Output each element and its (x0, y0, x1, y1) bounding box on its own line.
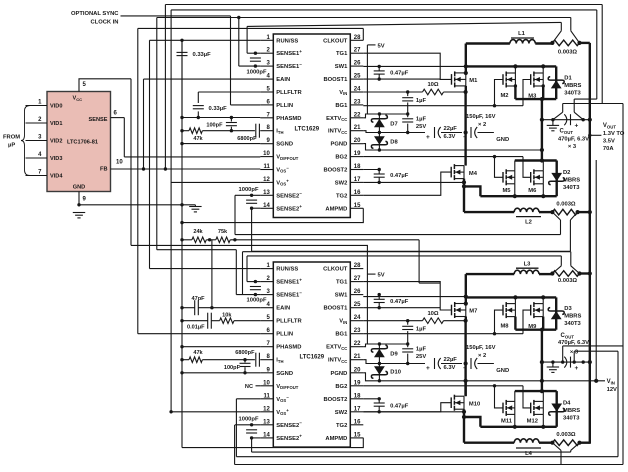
svg-text:SENSE2+: SENSE2+ (276, 434, 302, 442)
svg-text:NC: NC (245, 384, 253, 390)
svg-text:6.3V: 6.3V (444, 365, 456, 371)
svg-text:D3: D3 (564, 306, 572, 312)
svg-text:25V: 25V (416, 354, 426, 360)
svg-text:1µF: 1µF (416, 326, 427, 332)
svg-text:19: 19 (354, 151, 361, 157)
svg-text:VCC: VCC (73, 96, 83, 102)
svg-text:5V: 5V (378, 43, 385, 49)
svg-text:23: 23 (354, 99, 361, 105)
svg-text:10k: 10k (222, 313, 232, 319)
svg-text:1000pF: 1000pF (239, 417, 259, 423)
svg-text:0.003Ω: 0.003Ω (556, 432, 576, 438)
svg-text:VID4: VID4 (50, 174, 63, 180)
svg-text:16: 16 (354, 190, 361, 196)
svg-text:D8: D8 (390, 140, 398, 146)
svg-text:MBRS: MBRS (563, 408, 580, 414)
svg-text:M10: M10 (469, 402, 480, 408)
svg-text:D9: D9 (390, 352, 398, 358)
svg-text:L1: L1 (518, 31, 526, 37)
svg-text:LTC1629: LTC1629 (300, 355, 325, 361)
svg-text:PLLFLTR: PLLFLTR (276, 90, 302, 96)
svg-text:25V: 25V (416, 124, 426, 130)
svg-text:13: 13 (263, 190, 270, 196)
svg-text:BOOST2: BOOST2 (323, 397, 347, 403)
svg-text:+: + (575, 365, 579, 372)
svg-text:× 2: × 2 (478, 353, 486, 359)
svg-text:0.33µF: 0.33µF (193, 52, 212, 58)
svg-text:340T3: 340T3 (563, 416, 580, 422)
svg-text:BG1: BG1 (335, 332, 348, 338)
svg-text:M2: M2 (500, 93, 508, 99)
svg-text:D4: D4 (563, 401, 571, 407)
svg-text:1000pF: 1000pF (239, 187, 259, 193)
svg-text:22µF: 22µF (444, 357, 458, 363)
svg-text:18: 18 (354, 393, 361, 399)
svg-text:0.003Ω: 0.003Ω (558, 50, 578, 56)
svg-text:M7: M7 (469, 309, 477, 315)
svg-text:15: 15 (354, 203, 361, 209)
svg-text:14: 14 (263, 203, 270, 209)
svg-text:VID0: VID0 (50, 104, 62, 110)
svg-text:D7: D7 (390, 122, 397, 128)
svg-text:21: 21 (354, 125, 361, 131)
svg-text:INTVCC: INTVCC (328, 129, 347, 135)
svg-text:25: 25 (354, 74, 361, 80)
svg-text:BOOST1: BOOST1 (323, 77, 348, 83)
svg-text:PHASMD: PHASMD (276, 345, 301, 351)
svg-text:× 3: × 3 (570, 349, 579, 355)
svg-text:21: 21 (354, 354, 361, 360)
svg-text:EXTVCC: EXTVCC (326, 345, 347, 351)
svg-text:M1: M1 (469, 78, 478, 84)
svg-text:SENSE1+: SENSE1+ (276, 49, 302, 57)
svg-text:CLOCK IN: CLOCK IN (90, 20, 118, 26)
svg-text:+: + (463, 134, 467, 141)
svg-text:CLKOUT: CLKOUT (323, 267, 348, 273)
svg-text:6800pF: 6800pF (237, 136, 257, 142)
svg-text:24k: 24k (193, 229, 203, 235)
svg-text:M6: M6 (528, 188, 537, 194)
svg-text:10: 10 (263, 380, 270, 386)
svg-text:19: 19 (354, 380, 361, 386)
svg-text:VID3: VID3 (50, 156, 62, 162)
svg-text:VID1: VID1 (50, 121, 62, 127)
svg-text:SGND: SGND (276, 371, 293, 377)
svg-text:25: 25 (354, 302, 361, 308)
svg-text:VDIFFOUT: VDIFFOUT (276, 155, 298, 161)
svg-text:6.3V: 6.3V (444, 134, 456, 140)
svg-text:L2: L2 (525, 220, 532, 226)
svg-text:L3: L3 (524, 262, 532, 268)
svg-text:SGND: SGND (276, 142, 293, 148)
svg-text:23: 23 (354, 328, 361, 334)
svg-text:10Ω: 10Ω (427, 82, 438, 88)
svg-text:100pF: 100pF (224, 365, 241, 371)
svg-text:GND: GND (496, 368, 509, 374)
svg-text:TG1: TG1 (336, 280, 348, 286)
svg-text:SENSE1−: SENSE1− (276, 290, 302, 298)
svg-text:BG1: BG1 (335, 103, 348, 109)
svg-text:1000pF: 1000pF (247, 70, 267, 76)
svg-text:1000pF: 1000pF (247, 298, 267, 304)
svg-text:11: 11 (263, 393, 270, 399)
svg-text:470µF, 6.3V: 470µF, 6.3V (558, 136, 589, 142)
svg-text:0.47µF: 0.47µF (390, 299, 409, 305)
svg-text:D10: D10 (390, 370, 401, 376)
svg-text:47k: 47k (193, 136, 203, 142)
svg-text:LTC1706-81: LTC1706-81 (67, 140, 98, 146)
svg-text:0.47µF: 0.47µF (390, 404, 409, 410)
svg-text:14: 14 (263, 432, 270, 438)
svg-text:µP: µP (8, 143, 15, 149)
svg-text:TG2: TG2 (336, 423, 347, 429)
svg-text:PHASMD: PHASMD (276, 116, 301, 122)
svg-text:13: 13 (263, 419, 270, 425)
svg-text:10: 10 (263, 151, 270, 157)
svg-text:1µF: 1µF (416, 346, 427, 352)
svg-text:20: 20 (354, 138, 361, 144)
svg-text:EAIN: EAIN (276, 306, 290, 312)
svg-text:INTVCC: INTVCC (328, 358, 347, 364)
svg-text:D2: D2 (563, 170, 570, 176)
svg-text:CLKOUT: CLKOUT (323, 38, 348, 44)
svg-text:PGND: PGND (331, 142, 348, 148)
svg-text:17: 17 (354, 177, 361, 183)
svg-text:75k: 75k (218, 229, 228, 235)
svg-text:FB: FB (100, 167, 107, 173)
svg-text:1µF: 1µF (416, 98, 427, 104)
svg-text:GND: GND (73, 185, 85, 191)
svg-text:20: 20 (354, 367, 361, 373)
svg-text:VDIFFOUT: VDIFFOUT (276, 384, 298, 390)
svg-text:22µF: 22µF (444, 126, 458, 132)
svg-text:× 2: × 2 (478, 122, 486, 128)
svg-text:12: 12 (263, 406, 270, 412)
svg-text:BG2: BG2 (335, 155, 347, 161)
svg-text:1.3V TO: 1.3V TO (603, 131, 625, 137)
svg-text:M8: M8 (500, 323, 509, 329)
svg-text:AMPMD: AMPMD (325, 436, 347, 442)
svg-text:10: 10 (116, 160, 123, 166)
svg-text:MBRS: MBRS (563, 178, 580, 184)
svg-text:150µF, 16V: 150µF, 16V (466, 345, 496, 351)
svg-text:RUN/SS: RUN/SS (276, 38, 298, 44)
svg-text:EAIN: EAIN (276, 77, 290, 83)
svg-text:47pF: 47pF (191, 296, 205, 302)
svg-text:100pF: 100pF (206, 122, 223, 128)
svg-text:12: 12 (263, 177, 270, 183)
svg-text:26: 26 (354, 289, 361, 295)
svg-text:SENSE1+: SENSE1+ (276, 277, 302, 285)
svg-text:× 3: × 3 (568, 144, 577, 150)
svg-text:VID2: VID2 (50, 139, 62, 145)
svg-text:SW2: SW2 (335, 180, 348, 186)
svg-text:PLLIN: PLLIN (276, 103, 293, 109)
svg-text:28: 28 (354, 35, 361, 41)
svg-text:RUN/SS: RUN/SS (276, 267, 298, 273)
svg-text:M4: M4 (469, 171, 478, 177)
svg-text:0.01µF: 0.01µF (187, 325, 205, 331)
svg-text:SW1: SW1 (335, 293, 348, 299)
svg-text:OPTIONAL SYNC: OPTIONAL SYNC (71, 11, 119, 17)
svg-text:70A: 70A (603, 146, 614, 152)
svg-text:3.5V: 3.5V (603, 138, 615, 144)
svg-text:MBRS: MBRS (564, 314, 581, 320)
svg-text:ITH: ITH (276, 358, 283, 364)
svg-text:340T3: 340T3 (564, 321, 581, 327)
svg-text:+: + (575, 123, 579, 130)
svg-text:TG2: TG2 (336, 193, 347, 199)
svg-text:PGND: PGND (331, 371, 348, 377)
svg-text:VIN: VIN (339, 90, 347, 96)
svg-text:17: 17 (354, 406, 361, 412)
svg-text:0.47µF: 0.47µF (390, 173, 409, 179)
svg-text:COUT: COUT (560, 129, 574, 135)
svg-text:FROM: FROM (3, 135, 20, 141)
svg-text:AMPMD: AMPMD (325, 206, 347, 212)
svg-text:SENSE2+: SENSE2+ (276, 204, 302, 212)
svg-text:1µF: 1µF (416, 116, 427, 122)
svg-text:ITH: ITH (276, 129, 283, 135)
svg-text:10Ω: 10Ω (427, 311, 438, 317)
svg-text:0.47µF: 0.47µF (390, 70, 409, 76)
svg-text:26: 26 (354, 61, 361, 67)
svg-text:24: 24 (354, 87, 361, 93)
svg-text:15: 15 (354, 432, 361, 438)
svg-text:22: 22 (354, 112, 361, 118)
svg-text:12V: 12V (607, 387, 617, 393)
svg-text:470µF, 6.3V: 470µF, 6.3V (558, 340, 589, 346)
svg-text:MBRS: MBRS (564, 83, 581, 89)
svg-text:EXTVCC: EXTVCC (326, 116, 347, 122)
svg-text:47k: 47k (193, 350, 203, 356)
svg-text:PLLIN: PLLIN (276, 332, 293, 338)
svg-text:PLLFLTR: PLLFLTR (276, 319, 302, 325)
svg-text:340T3: 340T3 (563, 185, 580, 191)
svg-text:11: 11 (263, 164, 270, 170)
svg-text:+: + (463, 365, 467, 372)
svg-text:0.003Ω: 0.003Ω (556, 201, 576, 207)
svg-text:BOOST1: BOOST1 (323, 306, 348, 312)
svg-text:SW2: SW2 (335, 410, 348, 416)
svg-text:COUT: COUT (561, 333, 575, 339)
svg-text:150µF, 16V: 150µF, 16V (466, 114, 496, 120)
svg-text:22: 22 (354, 341, 361, 347)
svg-text:0.33µF: 0.33µF (209, 106, 228, 112)
svg-text:SW1: SW1 (335, 64, 348, 70)
svg-text:GND: GND (496, 137, 509, 143)
svg-text:0.003Ω: 0.003Ω (558, 278, 578, 284)
svg-text:27: 27 (354, 276, 361, 282)
svg-text:5V: 5V (378, 273, 385, 279)
svg-text:28: 28 (354, 263, 361, 269)
svg-text:24: 24 (354, 315, 361, 321)
svg-text:+: + (426, 134, 430, 141)
svg-text:SENSE: SENSE (89, 117, 108, 123)
svg-text:18: 18 (354, 164, 361, 170)
svg-text:SENSE2−: SENSE2− (276, 191, 302, 199)
svg-text:16: 16 (354, 419, 361, 425)
svg-text:27: 27 (354, 48, 361, 54)
svg-text:BOOST2: BOOST2 (323, 168, 347, 174)
svg-text:VIN: VIN (607, 379, 615, 385)
svg-text:340T3: 340T3 (564, 91, 581, 97)
svg-text:LTC1629: LTC1629 (295, 127, 320, 133)
svg-text:VIN: VIN (339, 319, 347, 325)
svg-text:BG2: BG2 (335, 384, 347, 390)
svg-text:SENSE1−: SENSE1− (276, 62, 302, 70)
svg-text:TG1: TG1 (336, 51, 348, 57)
svg-text:M12: M12 (527, 418, 538, 424)
svg-text:SENSE2−: SENSE2− (276, 421, 302, 429)
svg-text:L4: L4 (525, 451, 533, 457)
svg-text:+: + (426, 365, 430, 372)
svg-text:M11: M11 (501, 418, 513, 424)
svg-text:D1: D1 (564, 76, 572, 82)
svg-text:VOUT: VOUT (603, 123, 616, 129)
svg-text:M5: M5 (502, 188, 511, 194)
svg-text:6800pF: 6800pF (235, 350, 255, 356)
